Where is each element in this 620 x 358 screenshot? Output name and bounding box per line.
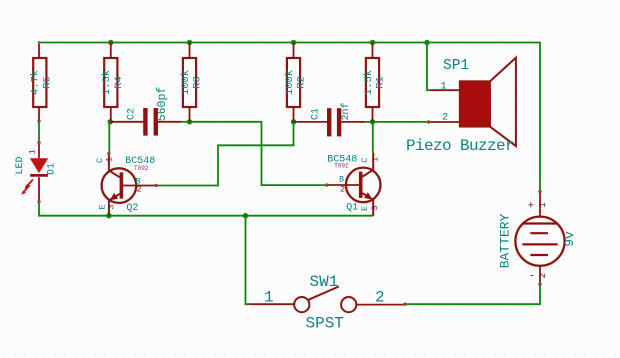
svg-text:LED: LED [15, 156, 26, 174]
SW1 pin 2 stub [356, 304, 405, 306]
SP1 pin 1 [430, 89, 460, 91]
wire bottom rail down to SW1 pin 1 [246, 216, 249, 305]
resistor R5 [30, 43, 54, 122]
wire LED cathode to bottom rail [39, 202, 373, 216]
transistor Q2 [95, 154, 156, 216]
capacitor C1 [294, 102, 365, 136]
svg-text:R2: R2 [296, 76, 308, 89]
svg-text:3: 3 [370, 205, 380, 210]
svg-text:SPST: SPST [306, 314, 344, 332]
svg-text:9v: 9v [562, 231, 577, 247]
wire R4/C2 node down to Q2 collector [108, 122, 110, 154]
wire C1 right to R1 node [362, 121, 373, 123]
Q2 base bar [120, 172, 124, 198]
svg-text:1: 1 [538, 202, 548, 207]
svg-text:2nf: 2nf [340, 102, 352, 120]
svg-text:B: B [339, 175, 344, 185]
SW1 lever [308, 287, 339, 301]
svg-text:3: 3 [107, 204, 117, 209]
pin end dot battery bottom [538, 283, 541, 286]
Q1 emitter pin [362, 193, 373, 216]
junction R1 top [370, 40, 375, 45]
wire rail drop to SP1 pin 1 [427, 43, 430, 91]
svg-text:2: 2 [538, 273, 548, 278]
pin end dot LED cathode [37, 200, 40, 203]
pin end dot Q1 base [325, 183, 328, 186]
SW1 pin 1 stub [249, 303, 295, 305]
svg-text:Q1: Q1 [346, 202, 358, 213]
svg-text:R5: R5 [41, 76, 53, 89]
svg-text:1: 1 [105, 157, 115, 162]
junction R3 bottom / C2 right [187, 119, 192, 124]
junction SW1 drop on bottom rail [243, 213, 248, 218]
svg-text:1.5k: 1.5k [363, 70, 375, 95]
svg-text:-: - [529, 271, 536, 283]
Q1 base bar [359, 172, 363, 198]
wire top supply rail [39, 43, 540, 192]
svg-text:SP1: SP1 [443, 58, 469, 74]
pin end dot Q2 base [155, 184, 158, 187]
svg-text:E: E [360, 206, 370, 211]
battery BT1 [498, 192, 578, 285]
svg-text:Piezo Buzzer: Piezo Buzzer [406, 137, 514, 155]
svg-text:560pf: 560pf [156, 87, 169, 122]
svg-text:C2: C2 [127, 108, 138, 120]
svg-text:4.7k: 4.7k [30, 70, 42, 95]
SP1 pin 2 [429, 121, 460, 123]
junction R3 top [187, 40, 192, 45]
Q1 collector pin [362, 153, 373, 177]
svg-text:2: 2 [375, 289, 385, 307]
svg-text:2: 2 [137, 185, 142, 195]
svg-text:100k: 100k [284, 70, 296, 95]
transistor Q1 [327, 153, 381, 216]
Q2 emitter pin [109, 194, 120, 216]
svg-text:+: + [528, 201, 535, 213]
battery pin + [539, 192, 541, 224]
pin end dot R5 bottom [37, 119, 40, 122]
battery pin - [539, 255, 541, 284]
svg-text:C1: C1 [311, 108, 322, 120]
svg-text:1: 1 [371, 157, 381, 162]
battery plates [522, 224, 557, 256]
svg-text:SW1: SW1 [310, 273, 339, 291]
svg-text:BATTERY: BATTERY [498, 213, 513, 268]
Q1 base pin [327, 184, 359, 186]
pin end dot battery top [538, 190, 541, 193]
junction R2 bottom / C1 left [291, 119, 296, 124]
svg-text:1: 1 [27, 149, 37, 154]
junction R2 top [291, 40, 296, 45]
junction SP1 drop [424, 40, 429, 45]
wire SW1 pin 2 to battery minus [405, 284, 540, 304]
junction Q2 emitter on bottom rail [106, 213, 111, 218]
svg-text:Q2: Q2 [126, 203, 138, 214]
svg-text:T092: T092 [134, 165, 149, 172]
pin end dot LED anode [37, 141, 40, 144]
wire net R2/C1 to Q2 base staircase [156, 122, 293, 186]
speaker SP1 [406, 58, 516, 155]
svg-text:R1: R1 [375, 76, 387, 89]
switch SW1 [249, 273, 405, 333]
pin end dot SP1 pin2 [427, 120, 430, 123]
wire net R3/C2 to Q1 base staircase [190, 122, 327, 185]
resistor R1 [363, 43, 387, 122]
resistor R4 [101, 43, 125, 122]
svg-text:R4: R4 [113, 76, 125, 89]
wire R1 node down to Q1 collector [372, 122, 374, 153]
junction R4 bottom / C2 left [108, 119, 113, 124]
svg-text:D1: D1 [47, 163, 58, 175]
svg-text:2: 2 [340, 185, 345, 195]
junction R4 top [108, 40, 113, 45]
LED D1 [15, 143, 58, 202]
svg-text:1: 1 [440, 81, 446, 93]
Q2 base pin [123, 185, 156, 187]
pin end dot R5 top corner [38, 41, 41, 44]
pin end dot Q2 collector [107, 152, 110, 155]
resistor R2 [284, 43, 308, 122]
pin end dot SW1 pin2 [403, 303, 406, 306]
SP1 cone [490, 58, 516, 146]
svg-text:R3: R3 [192, 76, 204, 89]
svg-text:1: 1 [264, 289, 274, 307]
svg-text:1.5k: 1.5k [101, 70, 113, 95]
svg-text:C: C [360, 158, 370, 163]
svg-text:100k: 100k [180, 70, 192, 95]
wire R1 node to SP1 pin 2 [373, 121, 429, 123]
svg-text:2: 2 [442, 112, 448, 124]
wire R5 to LED anode [38, 121, 40, 143]
Q2 collector pin [109, 154, 120, 178]
D1 emission arrows [27, 180, 34, 187]
resistor R3 [180, 43, 204, 122]
junction R1 bottom / C1 right [370, 119, 375, 124]
capacitor C2 [110, 87, 181, 136]
svg-text:T092: T092 [334, 163, 349, 170]
wire C2 span R4 node to R3 node [182, 121, 190, 123]
